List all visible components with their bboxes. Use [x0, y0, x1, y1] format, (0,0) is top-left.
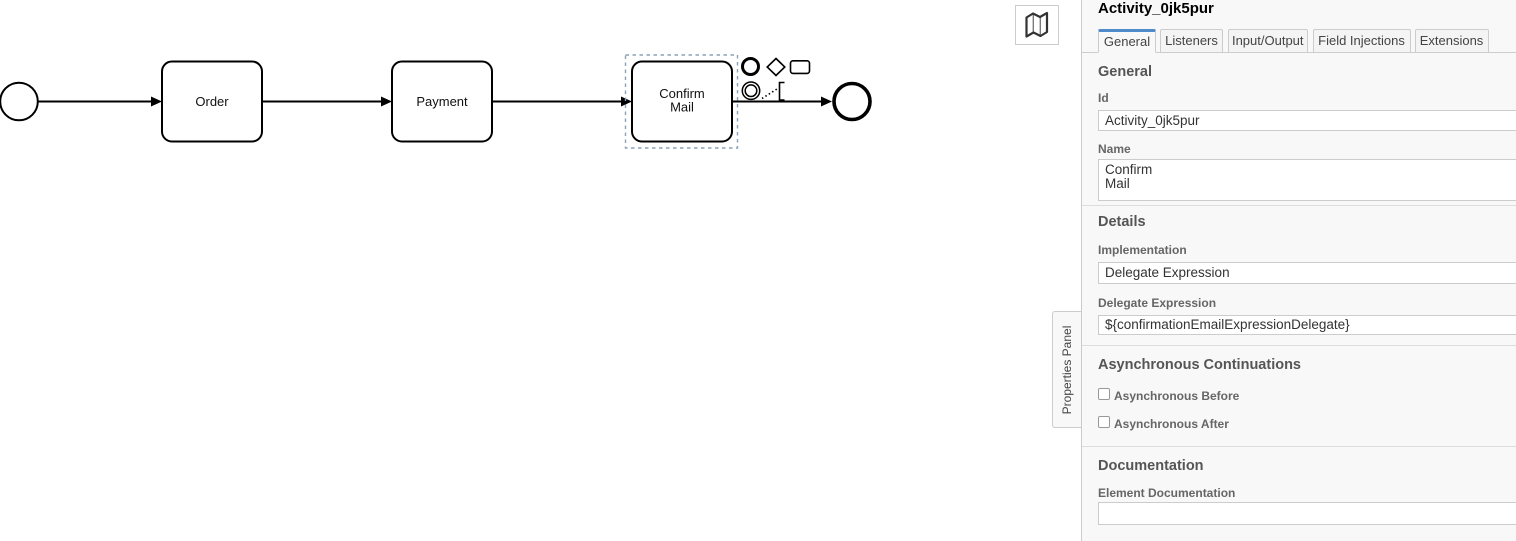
wire: Confirm Mail to end — [732, 101, 822, 103]
minimap toggle — [1015, 5, 1059, 45]
svg-text:Order: Order — [195, 94, 229, 109]
pad: intermediate event icon — [742, 82, 759, 99]
pad: end event icon — [743, 59, 759, 75]
start event — [0, 83, 38, 121]
pad: task icon — [791, 61, 810, 74]
wire: Payment to Confirm Mail — [492, 101, 622, 103]
task Order — [162, 62, 262, 142]
properties panel vertical tab — [1052, 311, 1081, 428]
pad: gateway icon — [767, 59, 785, 76]
wire: start to Order — [38, 101, 152, 103]
task Confirm Mail (service) — [632, 62, 732, 142]
wire: Order to Payment — [262, 101, 382, 103]
selection outline — [626, 55, 738, 148]
properties panel — [1081, 0, 1516, 541]
pad: trash icon — [0, 0, 1, 1]
pad: connect icon — [0, 0, 1, 1]
svg-text:Mail: Mail — [670, 100, 694, 115]
svg-text:Payment: Payment — [416, 94, 468, 109]
pad: text annotation icon — [762, 89, 777, 99]
BPMN canvas — [0, 0, 1081, 541]
tab bar bottom border — [1082, 52, 1516, 53]
pad: wrench icon — [0, 0, 1, 1]
end event — [834, 84, 870, 120]
task Payment — [392, 62, 492, 142]
